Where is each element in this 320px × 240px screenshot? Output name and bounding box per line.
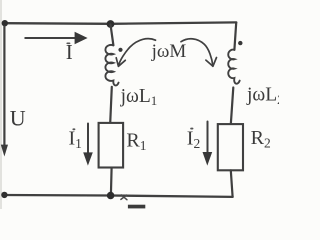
wire top horizontal [4, 22, 236, 23]
svg-text:U: U [10, 105, 26, 130]
overdot of I1 [72, 128, 75, 130]
artifact bar fragment bottom edge [128, 205, 145, 209]
overdot of I2 [190, 128, 193, 130]
mutual arrow right [181, 39, 217, 67]
scan edge shading left [0, 0, 2, 209]
inductor L1 [105, 45, 118, 86]
node top-middle [107, 20, 115, 28]
mutual arrow left [116, 39, 155, 67]
wire middle branch top [111, 25, 114, 46]
artifact x mark on bottom wire [121, 195, 127, 200]
wire bottom horizontal [4, 195, 233, 197]
current arrow I1 [83, 124, 93, 166]
voltage source arrow U [1, 27, 8, 157]
resistor R2 [218, 124, 243, 170]
wire right branch between L2 and R2 [231, 88, 234, 125]
dot mark right coil [238, 41, 242, 45]
wire middle branch bottom [110, 168, 113, 196]
current arrow I2 [203, 122, 213, 166]
svg-text:jωM: jωM [151, 41, 187, 62]
wire middle branch between L1 and R1 [110, 87, 112, 123]
node bottom-middle [107, 192, 115, 200]
overdot of I [66, 43, 70, 45]
resistor R1 [99, 123, 124, 168]
wire right branch bottom [231, 170, 233, 197]
dot mark left coil [118, 48, 122, 52]
svg-text:jωL2: jωL2 [246, 85, 279, 107]
wire right branch top [234, 23, 236, 50]
node bottom-left [1, 192, 7, 198]
current arrow I [25, 32, 87, 44]
node top-left [2, 20, 8, 26]
inductor L2 [228, 50, 239, 84]
